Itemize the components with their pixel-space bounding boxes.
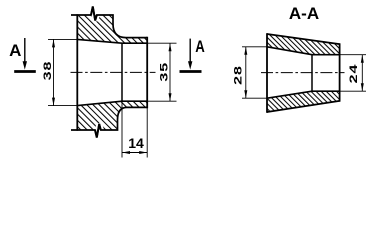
dimension 28: extension lines [242, 47, 267, 98]
break zigzag strokes emphasized [91, 7, 101, 138]
svg-text:A: A [9, 41, 21, 60]
cone bottom edge [267, 101, 340, 112]
cone top edge [267, 34, 340, 44]
hatching upper section area [70, 5, 155, 50]
svg-text:A: A [195, 38, 205, 57]
dimension 14: dimension line with arrows [122, 152, 147, 154]
tapered hole lower edge [77, 101, 147, 105]
outline: left face [76, 14, 78, 131]
hole upper edge in section [267, 47, 340, 55]
dimension 38: extension lines [48, 39, 77, 105]
cone right face [339, 43, 341, 101]
svg-text:A-A: A-A [289, 4, 319, 23]
centerline (axis) of section view [261, 72, 345, 74]
break halo top [91, 7, 97, 21]
svg-text:28: 28 [232, 65, 244, 85]
cone-cylinder transition edge [121, 43, 123, 101]
section mark left: thick bar [14, 70, 36, 73]
extension line from transition edge (for 14) [121, 101, 123, 157]
svg-text:14: 14 [128, 135, 144, 151]
dimension 35: extension lines [147, 43, 176, 101]
hatching lower section area [70, 95, 155, 140]
break halo bottom [95, 124, 101, 138]
hatching lower cone wall [260, 85, 348, 117]
extension line from right face (for 14) [146, 108, 148, 158]
svg-text:38: 38 [42, 61, 54, 81]
outline: right face of boss [146, 37, 148, 108]
dimension 35: dimension line with arrows [169, 43, 171, 101]
hole lower edge in section [267, 91, 340, 98]
hatching upper cone wall [260, 28, 348, 60]
dimension 24: dimension line with arrows [361, 55, 363, 91]
dimension 24: extension lines [340, 55, 366, 91]
dimension 38: dimension line with arrows [53, 39, 55, 105]
section mark right: thick bar [180, 70, 202, 73]
hole transition edge in section [311, 55, 313, 91]
section mark right: arrow [189, 39, 191, 62]
section mark left: arrow [24, 38, 26, 62]
outline: top edge with break zigzag [71, 7, 147, 38]
outline: bottom edge with break zigzag [71, 107, 147, 137]
break halo bottom wedge [98, 123, 105, 130]
tapered hole upper edge [77, 39, 147, 43]
centerline (axis) of left view [71, 71, 156, 73]
dimension 28: dimension line with arrows [245, 47, 247, 98]
svg-text:35: 35 [158, 62, 170, 82]
svg-text:24: 24 [348, 64, 360, 84]
cone left face [266, 33, 268, 113]
